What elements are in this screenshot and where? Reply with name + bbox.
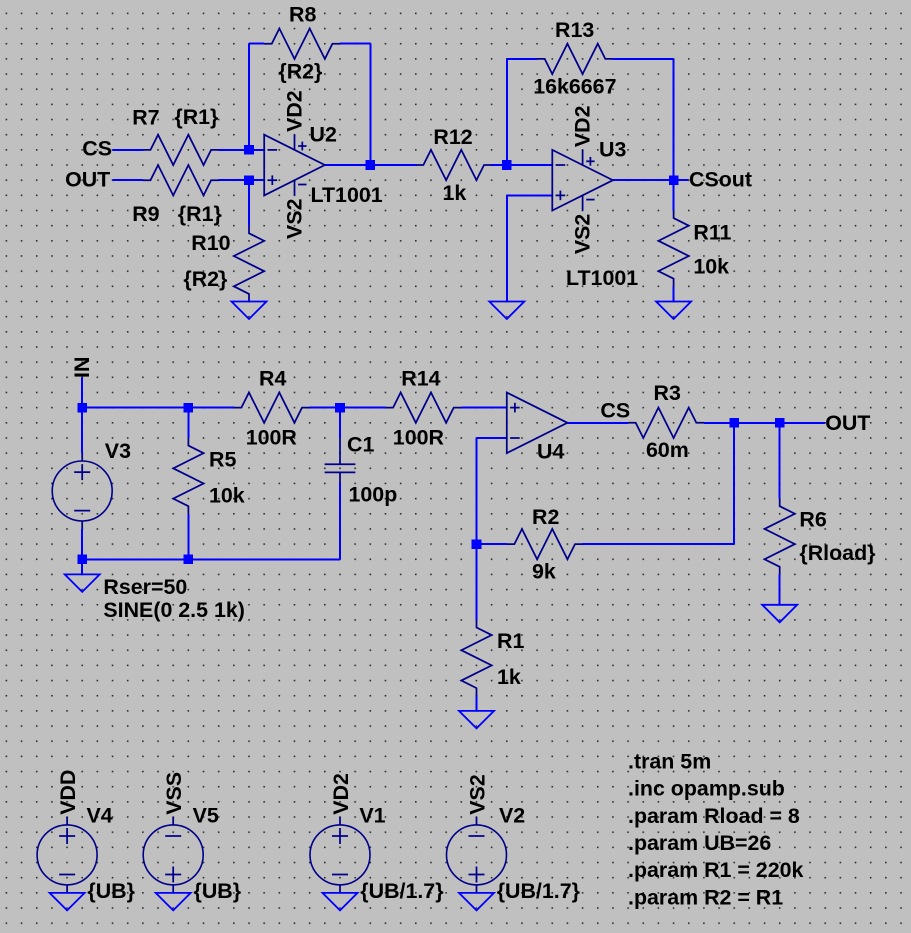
svg-text:{Rload}: {Rload} [799, 541, 875, 565]
svg-text:VD2: VD2 [329, 773, 353, 815]
svg-text:{UB/1.7}: {UB/1.7} [360, 879, 443, 903]
svg-text:{R1}: {R1} [174, 105, 218, 129]
svg-text:100R: 100R [393, 425, 445, 449]
svg-text:{R1}: {R1} [178, 202, 222, 226]
svg-text:.param R1 = 220k: .param R1 = 220k [628, 858, 804, 882]
svg-text:1k: 1k [443, 181, 467, 205]
svg-text:{UB}: {UB} [194, 879, 242, 903]
svg-text:10k: 10k [693, 255, 729, 279]
svg-text:V5: V5 [193, 804, 219, 828]
svg-text:R14: R14 [401, 367, 440, 391]
svg-text:VS2: VS2 [570, 214, 594, 255]
svg-text:1k: 1k [497, 665, 521, 689]
svg-text:V3: V3 [105, 439, 131, 463]
svg-text:V4: V4 [87, 804, 113, 828]
svg-text:V1: V1 [359, 804, 385, 828]
svg-text:R3: R3 [654, 381, 681, 405]
svg-text:{R2}: {R2} [183, 267, 227, 291]
svg-text:.param Rload = 8: .param Rload = 8 [628, 804, 800, 828]
svg-text:.param UB=26: .param UB=26 [628, 831, 771, 855]
svg-text:V2: V2 [499, 804, 525, 828]
svg-text:R9: R9 [132, 202, 159, 226]
svg-text:VDD: VDD [56, 770, 80, 815]
svg-text:R11: R11 [693, 221, 731, 245]
svg-text:CS: CS [600, 398, 630, 422]
svg-text:VD2: VD2 [570, 105, 594, 147]
svg-text:R10: R10 [191, 231, 230, 255]
svg-text:VSS: VSS [162, 772, 186, 815]
svg-text:SINE(0 2.5 1k): SINE(0 2.5 1k) [103, 598, 244, 622]
svg-text:LT1001: LT1001 [311, 183, 383, 207]
svg-text:{R2}: {R2} [278, 60, 322, 84]
svg-text:IN: IN [70, 357, 94, 378]
svg-text:10k: 10k [209, 483, 245, 507]
svg-text:VD2: VD2 [282, 90, 306, 132]
svg-text:R4: R4 [259, 367, 286, 391]
svg-text:R12: R12 [433, 125, 472, 149]
svg-text:OUT: OUT [65, 167, 110, 191]
svg-text:C1: C1 [347, 433, 374, 457]
svg-text:.param R2 = R1: .param R2 = R1 [628, 885, 783, 909]
svg-text:R6: R6 [799, 507, 826, 531]
svg-text:VS2: VS2 [465, 774, 489, 815]
svg-text:R7: R7 [132, 106, 159, 130]
svg-text:U3: U3 [599, 138, 626, 162]
svg-text:9k: 9k [532, 559, 556, 583]
svg-text:CSout: CSout [689, 168, 752, 192]
svg-text:R5: R5 [209, 448, 236, 472]
svg-text:U2: U2 [310, 122, 337, 146]
svg-text:{UB/1.7}: {UB/1.7} [497, 879, 580, 903]
svg-text:60m: 60m [646, 438, 689, 462]
svg-text:.inc opamp.sub: .inc opamp.sub [628, 777, 785, 801]
svg-text:R1: R1 [497, 629, 524, 653]
svg-text:R13: R13 [555, 18, 594, 42]
svg-text:U4: U4 [537, 440, 564, 464]
svg-text:.tran 5m: .tran 5m [628, 749, 711, 773]
svg-text:16k6667: 16k6667 [533, 74, 616, 98]
svg-text:{UB}: {UB} [87, 879, 135, 903]
svg-text:Rser=50: Rser=50 [103, 575, 187, 599]
svg-text:VS2: VS2 [282, 198, 306, 239]
svg-text:LT1001: LT1001 [566, 266, 638, 290]
svg-text:R8: R8 [289, 2, 316, 26]
svg-text:CS: CS [82, 137, 112, 161]
svg-text:100R: 100R [246, 425, 298, 449]
svg-text:100p: 100p [349, 483, 398, 507]
svg-text:OUT: OUT [825, 411, 870, 435]
svg-text:R2: R2 [532, 505, 559, 529]
